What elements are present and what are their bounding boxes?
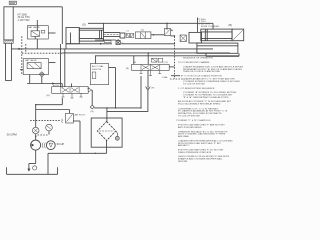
dashed pilot line relief bbox=[30, 120, 61, 122]
cylinder B barrel bbox=[201, 29, 232, 41]
svg-text:AIR PILOT: AIR PILOT bbox=[75, 114, 86, 117]
cylinder C rod bbox=[6, 43, 12, 80]
svg-text:TO CLM OF STROKE: TO CLM OF STROKE bbox=[178, 116, 200, 118]
valve bank E drains bbox=[140, 70, 169, 79]
4-way valve symbol inside V2 bbox=[27, 63, 41, 69]
wire: drops to valve bank E bbox=[134, 52, 149, 64]
machine frame box bbox=[13, 7, 62, 44]
valve bank H bbox=[47, 84, 92, 98]
svg-text:(N): (N) bbox=[91, 111, 94, 113]
cylinder C piston hatch bbox=[4, 40, 13, 43]
filter F1 inline bbox=[95, 39, 124, 45]
wire: bus B bbox=[62, 48, 213, 50]
cylinder B end block bbox=[232, 29, 244, 41]
wire: E drains to return bbox=[107, 76, 148, 111]
wire: rod port line (bus B left) bbox=[11, 48, 62, 50]
svg-text:BORE CYLINDER: BORE CYLINDER bbox=[201, 26, 220, 28]
valve box V1 (upper mounted valve) bbox=[27, 26, 55, 39]
check valve F bbox=[146, 70, 155, 90]
accumulator box bbox=[87, 56, 116, 109]
pressure gauge PG bbox=[46, 124, 53, 134]
wire: bus D bbox=[95, 55, 239, 57]
spec note text (3 lines) bbox=[18, 13, 31, 22]
svg-text:(C): (C) bbox=[141, 30, 144, 32]
junction diamond N bbox=[90, 105, 94, 113]
svg-text:ARE REAL: ARE REAL bbox=[178, 135, 190, 138]
svg-text:(C2): (C2) bbox=[164, 62, 169, 64]
wire: bus A bbox=[66, 43, 175, 45]
dashed drain line left bbox=[22, 36, 63, 74]
svg-text:2. CYLINDER EXTEND SEQUENCE: 2. CYLINDER EXTEND SEQUENCE bbox=[178, 88, 215, 90]
svg-text:30 GPM: 30 GPM bbox=[7, 133, 18, 137]
leader arrow to text bbox=[171, 75, 180, 77]
svg-text:(E): (E) bbox=[126, 68, 129, 70]
svg-text:BAT VALVE: BAT VALVE bbox=[28, 26, 40, 29]
svg-text:TO CYLINDER UNIT CHANNEL: TO CYLINDER UNIT CHANNEL bbox=[178, 61, 211, 64]
svg-text:30 HP: 30 HP bbox=[57, 142, 65, 146]
pipe pair A1/B1 down to valve bank H bbox=[53, 44, 65, 87]
svg-text:(H): (H) bbox=[47, 95, 50, 97]
dashed line pump to gauge bbox=[38, 134, 49, 136]
svg-text:IF "C" IS IN CYCLE LOADED POSI: IF "C" IS IN CYCLE LOADED POSITION bbox=[181, 75, 222, 78]
sequence of operation text block bbox=[176, 57, 243, 163]
solenoid valve symbol inside V1 bbox=[31, 31, 40, 37]
wire: filter outlet to tank bbox=[48, 141, 107, 175]
filter assembly box bbox=[91, 118, 122, 147]
press cylinder G barrel bbox=[79, 28, 103, 41]
wire: C to D bbox=[151, 34, 165, 35]
motor M1 bbox=[46, 141, 55, 150]
check valve CV1 (diamond on V2 bottom) bbox=[39, 72, 44, 77]
svg-text:"B" & "A" THEN RETRACT HOME AS: "B" & "A" THEN RETRACT HOME AS STOPS bbox=[183, 96, 229, 99]
wire: V2 to pipes down bbox=[27, 75, 62, 88]
svg-text:FULLY ACCESSIBLE RETURN AT SPE: FULLY ACCESSIBLE RETURN AT SPEED bbox=[178, 103, 221, 106]
svg-text:THEN FULL FORCE CLAMP AT END: THEN FULL FORCE CLAMP AT END bbox=[183, 70, 221, 73]
wire: pump riser bbox=[35, 98, 62, 140]
press cylinder G mount block bbox=[66, 28, 79, 49]
svg-text:CYLINDER "C" & "B" CLAMP/JOG: CYLINDER "C" & "B" CLAMP/JOG bbox=[176, 119, 211, 122]
svg-text:ACC 5 GAL: ACC 5 GAL bbox=[92, 65, 104, 68]
cylinder C (left clamp cylinder) barrel bbox=[4, 7, 13, 40]
relief valve RV bbox=[36, 110, 86, 154]
wire: bus C bbox=[62, 52, 230, 54]
svg-text:AND AUTO: AND AUTO bbox=[178, 144, 190, 147]
svg-text:1 GAL: 1 GAL bbox=[162, 76, 169, 79]
wire: D down dashed pilot bbox=[174, 35, 175, 36]
svg-text:(G): (G) bbox=[82, 24, 86, 27]
structure frame under cylinder B bbox=[197, 43, 239, 56]
svg-text:DWELL/PRESSURE COMPLETE: DWELL/PRESSURE COMPLETE bbox=[178, 152, 212, 154]
check valve on riser bbox=[32, 127, 39, 134]
svg-text:3000 PSI: 3000 PSI bbox=[92, 69, 102, 71]
pilot line from valve V1 bbox=[36, 20, 38, 31]
solenoid boxes on bank E bbox=[152, 58, 163, 62]
coupling C1 bbox=[120, 31, 134, 38]
wire: top bus bbox=[88, 18, 213, 33]
filter diamond bbox=[97, 118, 119, 141]
coupling bbox=[42, 143, 45, 149]
svg-text:RETURN: RETURN bbox=[178, 161, 188, 163]
svg-text:A2: A2 bbox=[134, 61, 137, 64]
wire: suction line bbox=[27, 150, 36, 172]
dashed pilot right of E bbox=[170, 78, 185, 80]
valve bank E bbox=[126, 61, 169, 71]
valve D (relief style) bbox=[164, 23, 173, 36]
pump P1 bbox=[31, 140, 41, 150]
reservoir tank bbox=[7, 167, 58, 174]
svg-text:TO CLM OF STROKE: TO CLM OF STROKE bbox=[183, 84, 205, 86]
valve box V2 (lower mounted valve) bbox=[20, 59, 56, 75]
svg-text:C1: C1 bbox=[126, 31, 130, 33]
valve A group bbox=[180, 32, 201, 43]
title box top-left bbox=[9, 1, 16, 4]
svg-text:(B): (B) bbox=[229, 24, 233, 27]
svg-text:SEQUENCE OF OPERATION: SEQUENCE OF OPERATION bbox=[183, 57, 213, 60]
svg-text:(F): (F) bbox=[152, 88, 155, 90]
svg-text:ANTI-SYNCHRONIZED: ANTI-SYNCHRONIZED bbox=[178, 126, 202, 129]
wire: return line to filter bbox=[94, 107, 141, 118]
valve C (3-position) bbox=[136, 30, 151, 39]
svg-text:1 1/2" STK: 1 1/2" STK bbox=[199, 23, 210, 25]
svg-text:1 1/FT 502: 1 1/FT 502 bbox=[18, 19, 31, 22]
valve bank H drains bbox=[62, 93, 83, 98]
cylinder B spec text bbox=[197, 19, 232, 28]
svg-text:BAT VALVE: BAT VALVE bbox=[25, 59, 37, 62]
wire: H tank port to diamond N bbox=[91, 90, 94, 105]
press cylinder G rod bbox=[104, 33, 121, 37]
